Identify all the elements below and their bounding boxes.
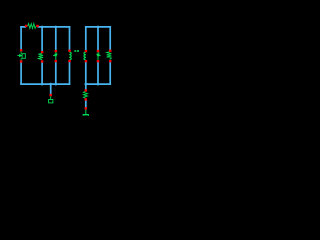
pin dot R1 left bbox=[25, 25, 28, 27]
pin dot L1 top bbox=[68, 50, 71, 52]
inductor L1 (branch D) bbox=[69, 52, 71, 60]
junction bottom rail at B bbox=[41, 83, 44, 86]
pin dot L2 top bbox=[85, 50, 88, 52]
pin dot R3 top bbox=[109, 50, 112, 52]
wire branch G vertical bbox=[109, 27, 111, 84]
value label text blob bbox=[74, 50, 79, 52]
pin dot Q2 bottom bbox=[97, 60, 100, 62]
wire ground stub left bbox=[50, 84, 52, 93]
ground GND2 (tee style) bbox=[83, 110, 89, 116]
resistor R3 vertical (branch G) bbox=[107, 52, 112, 60]
wire branch B vertical bbox=[41, 27, 43, 84]
pin dot Q1 top bbox=[55, 50, 58, 52]
pin dot R4 top bbox=[85, 89, 88, 91]
wire branch C vertical bbox=[55, 27, 57, 84]
wire branch E vertical bbox=[85, 27, 87, 108]
component M1 box with gate arrow (branch A) bbox=[17, 51, 25, 60]
resistor R1 horizontal top bbox=[28, 24, 37, 29]
pin dot GND1 bbox=[49, 94, 52, 96]
pin dot L2 bottom bbox=[85, 60, 88, 62]
component Q1 arrow symbol (branch C) bbox=[53, 52, 57, 60]
junction top rail at B bbox=[41, 26, 44, 29]
resistor R4 vertical below right rail bbox=[83, 91, 87, 98]
pin dot L1 bottom bbox=[68, 60, 71, 62]
pin dot M1 top bbox=[20, 49, 23, 51]
wire bottom rail left circuit bbox=[21, 83, 69, 85]
pin dot R2 bottom bbox=[41, 60, 44, 62]
pin dot GND2 bbox=[85, 107, 88, 109]
component Q2 arrow symbol (branch F) bbox=[97, 52, 101, 60]
pin dot R2 top bbox=[41, 51, 44, 53]
junction top rail at C bbox=[55, 26, 58, 29]
junction bottom rail at C bbox=[55, 83, 58, 86]
resistor R2 vertical (branch B) bbox=[38, 53, 43, 59]
junction top rail at F bbox=[97, 26, 100, 29]
junction bottom rail at F bbox=[97, 83, 100, 86]
wire left vertical branch A bbox=[20, 27, 22, 84]
pin dot R3 bottom bbox=[109, 60, 112, 62]
junction bottom rail ground tap bbox=[49, 83, 52, 86]
junction bottom rail at E bbox=[85, 83, 88, 86]
inductor L2 (branch E) bbox=[84, 52, 86, 60]
pin dot M1 bottom bbox=[20, 60, 23, 62]
wire bottom rail right circuit bbox=[86, 83, 110, 85]
ground GND1 (box style) bbox=[49, 96, 53, 103]
pin dot Q1 bottom bbox=[55, 60, 58, 62]
wire branch F vertical bbox=[97, 27, 99, 84]
pin dot Q2 top bbox=[97, 50, 100, 52]
wire top rail right circuit bbox=[86, 26, 110, 28]
pin dot R1 right bbox=[36, 25, 39, 27]
wire branch D vertical bbox=[69, 27, 71, 84]
pin dot R4 bottom bbox=[85, 98, 88, 100]
wire top rail left circuit bbox=[21, 26, 69, 28]
